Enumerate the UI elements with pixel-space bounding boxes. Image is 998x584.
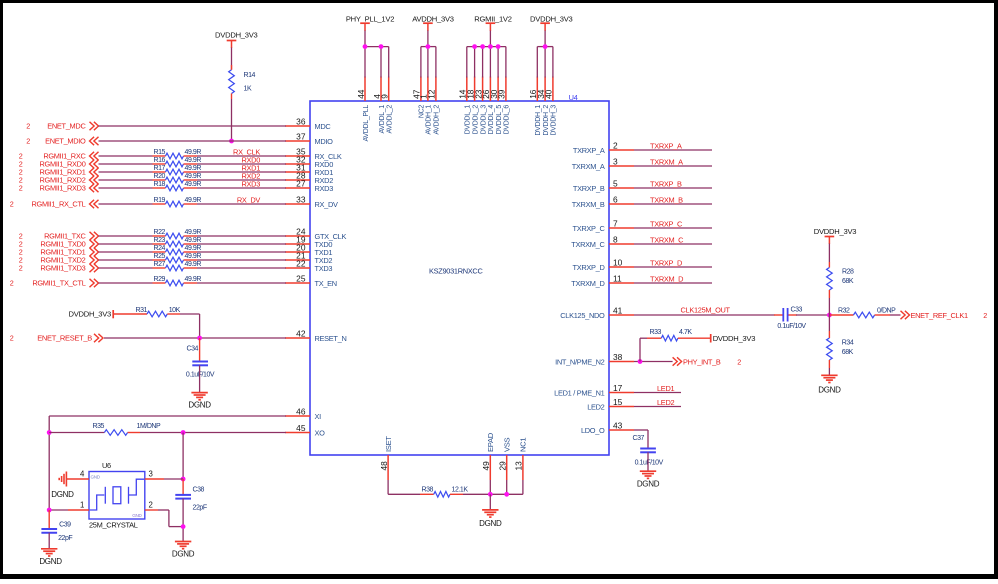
U4 pin 27 RXD3 (285, 179, 333, 194)
U4 pin 41 CLK125_NDO (560, 306, 634, 321)
port RGMII1_RXC (page 2) (19, 152, 99, 161)
U4 top pin 34 DVDDH_2 (536, 77, 550, 136)
svg-text:TXRXM_C: TXRXM_C (650, 236, 684, 245)
resistor R33 4.7K (647, 329, 711, 341)
junction EPAD/ground (488, 492, 493, 497)
port RGMII1_TXD1 (page 2) (19, 248, 99, 257)
svg-text:DVDDL_5: DVDDL_5 (496, 105, 503, 135)
node RXD2 (241, 172, 260, 181)
svg-text:RESET_N: RESET_N (315, 334, 347, 343)
wire RGMII1_RX_CTL to R19 (99, 203, 153, 205)
resistor R20 49.9R (153, 173, 202, 183)
node TXRXM_B (650, 196, 683, 205)
svg-text:DVDDH_3V3: DVDDH_3V3 (69, 310, 112, 319)
junction R14/MDIO (229, 139, 234, 144)
wire RGMII1_RXC to R15 (99, 155, 153, 157)
svg-text:R35: R35 (93, 423, 105, 430)
svg-text:40: 40 (544, 89, 554, 99)
U4 top pin 14 DVDDL_1 (458, 77, 472, 135)
node RXD1 (241, 164, 260, 173)
U4 pin 11 TXRXM_D (571, 274, 634, 289)
svg-text:U4: U4 (569, 93, 578, 102)
svg-text:R38: R38 (422, 486, 434, 493)
resistor R15 49.9R (153, 149, 202, 159)
svg-text:R27: R27 (154, 261, 166, 268)
junction INT_N/R33 (638, 359, 643, 364)
svg-text:1: 1 (80, 501, 84, 510)
svg-text:11: 11 (613, 274, 622, 284)
ground DGND (C38) (172, 542, 195, 559)
U4 top pin 18 DVDDL_2 (465, 77, 479, 135)
svg-text:49.9R: 49.9R (185, 149, 202, 156)
svg-text:MDIO: MDIO (315, 137, 334, 146)
crystal pin 4 lead (66, 470, 89, 480)
power symbol PHY_PLL_1V2 (346, 15, 394, 47)
U4 pin 24 GTX_CLK (285, 227, 346, 242)
ground DGND (C37) (637, 471, 660, 489)
wire R31 to RESET_N net (180, 314, 200, 338)
node RX_DV (237, 196, 261, 205)
svg-text:1K: 1K (244, 86, 252, 93)
svg-text:49.9R: 49.9R (185, 253, 202, 260)
ground DGND (C39) (39, 549, 62, 566)
wire R28 to CLK125 node (828, 298, 830, 315)
wire pin drop x=490.4 (489, 47, 491, 78)
resistor R19 49.9R (153, 197, 202, 207)
node TXRXM_C (650, 236, 684, 245)
node RX_CLK (233, 148, 260, 157)
junction RGMII_1V2 bus (496, 44, 501, 49)
port RGMII1_TX_CTL (page 2) (10, 279, 99, 288)
svg-text:RGMII1_RX_CTL: RGMII1_RX_CTL (31, 200, 85, 209)
wire RGMII1_TX_CTL to R29 (99, 282, 153, 284)
wire power bus AVDDH_3V3 (421, 46, 436, 48)
U4 pin 45 XO (285, 423, 325, 438)
svg-text:DVDDL_2: DVDDL_2 (472, 105, 479, 135)
svg-text:8: 8 (613, 235, 618, 245)
svg-text:DVDDH_2: DVDDH_2 (543, 105, 550, 136)
svg-text:DVDDL_1: DVDDL_1 (465, 105, 472, 135)
svg-text:R25: R25 (154, 253, 166, 260)
wire R35 to XO (140, 432, 286, 434)
wire R27 to U4 (197, 267, 286, 269)
wire C34 to ground (199, 365, 201, 392)
wire R17 to U4 (197, 171, 286, 173)
svg-text:C39: C39 (59, 521, 71, 528)
port RGMII1_RXD2 (page 2) (19, 176, 99, 185)
resistor R22 49.9R (153, 229, 202, 239)
U4 pin 37 MDIO (285, 132, 333, 147)
junction DVDDH_3V3 bus (543, 44, 548, 49)
wire power bus RGMII_1V2 (467, 46, 506, 48)
svg-text:12.1K: 12.1K (452, 486, 469, 493)
junction XI/C39/crystal pin1 (47, 508, 52, 513)
svg-text:C33: C33 (791, 307, 803, 314)
wire pin drop x=552.9 (552, 47, 554, 78)
resistor R18 49.9R (153, 181, 202, 191)
svg-text:TXRXM_A: TXRXM_A (572, 162, 605, 171)
svg-text:INT_N/PME_N2: INT_N/PME_N2 (555, 358, 605, 367)
svg-text:EPAD: EPAD (486, 432, 495, 452)
U4 top pin 40 DVDDH_3 (544, 77, 558, 136)
svg-text:49.9R: 49.9R (185, 245, 202, 252)
resistor R28 68K (827, 262, 854, 298)
wire pin drop x=427.9 (427, 47, 429, 78)
svg-text:AVDDL_PLL: AVDDL_PLL (363, 105, 370, 142)
svg-text:TXRXP_A: TXRXP_A (573, 146, 605, 155)
junction AVDDH_3V3 bus (426, 44, 431, 49)
svg-text:41: 41 (613, 306, 623, 316)
svg-text:DVDDH_3V3: DVDDH_3V3 (713, 334, 756, 343)
svg-text:25: 25 (296, 274, 306, 284)
U4 pin 32 RXD0 (285, 155, 333, 170)
power symbol DVDDH_3V3 (R28) (814, 227, 857, 244)
svg-text:LED2: LED2 (657, 398, 674, 407)
U4 bottom pin 13 NC1 (514, 438, 528, 480)
wire pin drop x=482.6 (482, 47, 484, 78)
junction CLK125/R28/R34 (827, 313, 832, 318)
svg-text:XO: XO (315, 429, 326, 438)
power symbol DVDDH_3V3 (530, 15, 573, 47)
svg-text:15: 15 (613, 397, 623, 407)
U4 pin 43 LDO_O (581, 421, 634, 436)
resistor R25 49.9R (153, 253, 202, 263)
capacitor C33 0.1uF/10V (774, 307, 806, 331)
svg-text:NC1: NC1 (519, 438, 528, 452)
svg-text:42: 42 (296, 329, 306, 339)
node TXRXM_A (650, 158, 683, 167)
svg-text:TXD3: TXD3 (315, 264, 333, 273)
U4 bottom pin 29 VSS (498, 437, 512, 480)
svg-text:RX_DV: RX_DV (237, 196, 261, 205)
U4 top pin 1 AVDDH_1 (419, 77, 433, 135)
wire RGMII1_RXD1 to R17 (99, 171, 153, 173)
svg-text:ENET_MDC: ENET_MDC (47, 122, 86, 131)
junction PHY_PLL_1V2 bus (379, 44, 384, 49)
node CLK125M_OUT (681, 306, 731, 315)
wire R20 to U4 (197, 179, 286, 181)
svg-text:RX_DV: RX_DV (315, 200, 339, 209)
svg-text:DVDDH_1: DVDDH_1 (535, 105, 542, 136)
svg-text:2: 2 (983, 311, 987, 320)
capacitor C37 0.1uF/10V (633, 435, 664, 466)
wire R24 to U4 (197, 251, 286, 253)
ground DGND (crystal pin4) (51, 472, 74, 499)
svg-text:C38: C38 (193, 487, 205, 494)
svg-text:9: 9 (380, 94, 390, 99)
U4 top pin 44 AVDDL_PLL (356, 77, 370, 142)
wire LED2 (634, 406, 681, 408)
resistor R24 49.9R (153, 245, 202, 255)
svg-text:12: 12 (427, 89, 437, 99)
U4 top pin 47 NC2 (412, 77, 426, 119)
svg-text:2: 2 (613, 141, 618, 151)
U4 top pin 4 AVDDL_1 (372, 77, 386, 134)
svg-text:AVDDH_1: AVDDH_1 (426, 105, 433, 135)
svg-text:29: 29 (498, 461, 508, 471)
svg-text:DGND: DGND (51, 490, 74, 499)
svg-text:68K: 68K (842, 349, 854, 356)
port RGMII1_TXD0 (page 2) (19, 240, 99, 249)
svg-text:R19: R19 (154, 197, 166, 204)
svg-text:DGND: DGND (818, 385, 841, 394)
U4 pin 2 TXRXP_A (573, 141, 634, 156)
wire VSS down (506, 480, 508, 494)
svg-text:GND: GND (91, 475, 101, 480)
svg-text:68K: 68K (842, 278, 854, 285)
wire R34 to ground (828, 368, 830, 375)
svg-text:RGMII_1V2: RGMII_1V2 (474, 15, 511, 24)
U4 pin 10 TXRXP_D (573, 258, 635, 273)
svg-text:R20: R20 (154, 173, 166, 180)
svg-text:DVDDL_3: DVDDL_3 (480, 105, 487, 135)
node LED1 (657, 384, 674, 393)
U4 pin 28 RXD2 (285, 171, 333, 186)
svg-text:17: 17 (613, 383, 623, 393)
svg-text:ENET_RESET_B: ENET_RESET_B (37, 334, 92, 343)
wire pin drop x=388.7 (388, 47, 390, 78)
wire C39 to ground (48, 533, 50, 549)
junction VSS (504, 492, 509, 497)
svg-text:49.9R: 49.9R (185, 181, 202, 188)
U4 pin 42 RESET_N (285, 329, 347, 344)
svg-text:DVDDH_3V3: DVDDH_3V3 (814, 227, 857, 236)
wire ENET_MDC to U4 (99, 125, 287, 127)
svg-text:7: 7 (613, 219, 618, 229)
wire R14 to MDIO (231, 99, 233, 141)
svg-text:R28: R28 (842, 269, 854, 276)
resistor R23 49.9R (153, 237, 202, 247)
svg-text:37: 37 (296, 132, 306, 142)
wire DVDDH_3V3 to R28 (828, 244, 830, 263)
svg-text:R34: R34 (842, 339, 854, 346)
wire EPAD to ground (489, 494, 491, 510)
svg-text:VSS: VSS (503, 437, 512, 452)
svg-text:PHY_INT_B: PHY_INT_B (683, 357, 721, 366)
svg-text:TXRXP_C: TXRXP_C (573, 224, 606, 233)
svg-text:C37: C37 (633, 435, 645, 442)
svg-text:2: 2 (10, 200, 14, 209)
svg-text:0.1uF/10V: 0.1uF/10V (635, 459, 664, 466)
U4 pin 20 TXD1 (285, 243, 332, 258)
capacitor C38 22pF (175, 479, 207, 512)
svg-text:R16: R16 (154, 157, 166, 164)
junction crystal pin3/C38 (181, 477, 186, 482)
wire LED1 (634, 392, 681, 394)
svg-text:GND: GND (132, 513, 142, 518)
svg-text:49.9R: 49.9R (185, 237, 202, 244)
crystal U6 25M_CRYSTAL (89, 461, 145, 530)
svg-text:2: 2 (19, 264, 23, 273)
svg-text:LED1 / PME_N1: LED1 / PME_N1 (554, 389, 605, 398)
svg-text:49.9R: 49.9R (185, 276, 202, 283)
resistor R34 68K (827, 331, 854, 368)
svg-text:RGMII1_TXD3: RGMII1_TXD3 (40, 264, 85, 273)
svg-text:R14: R14 (244, 72, 256, 79)
svg-text:49: 49 (481, 461, 491, 471)
port ENET_RESET_B (page 2) (10, 334, 103, 343)
U4 pin 6 TXRXM_B (572, 195, 634, 210)
wire TXRXM_D (634, 282, 712, 284)
resistor R14 1K (229, 65, 256, 99)
svg-text:4.7K: 4.7K (679, 329, 692, 336)
svg-text:C34: C34 (187, 346, 199, 353)
wire pin drop x=365 (364, 47, 366, 78)
svg-text:DVDDL_6: DVDDL_6 (504, 105, 511, 135)
wire pin drop x=466.8 (466, 47, 468, 78)
port ENET_MDC (page 2) (26, 122, 98, 131)
resistor R35 1M/DNP (49, 423, 161, 436)
ground DGND (R34) (818, 375, 841, 394)
svg-text:DVDDL_4: DVDDL_4 (488, 105, 495, 135)
svg-text:27: 27 (296, 179, 306, 189)
svg-text:R22: R22 (154, 229, 166, 236)
svg-text:ENET_REF_CLK1: ENET_REF_CLK1 (911, 311, 968, 320)
svg-text:RXD3: RXD3 (241, 180, 260, 189)
svg-text:33: 33 (296, 195, 306, 205)
junction RESET/C34 (197, 336, 202, 341)
svg-text:RXD3: RXD3 (315, 184, 334, 193)
svg-text:TXRXM_C: TXRXM_C (571, 240, 605, 249)
junction RGMII_1V2 bus (488, 44, 493, 49)
svg-text:10K: 10K (169, 307, 181, 314)
U4 top pin 23 DVDDL_3 (473, 77, 487, 135)
svg-text:22pF: 22pF (193, 505, 207, 512)
wire NC1 down (522, 480, 524, 494)
svg-text:TXRXP_D: TXRXP_D (650, 259, 682, 268)
wire XO down to crystal pin3 (182, 433, 184, 480)
svg-text:RGMII1_RXD3: RGMII1_RXD3 (40, 184, 86, 193)
wire C37 to ground (647, 452, 649, 471)
port RGMII1_RX_CTL (page 2) (10, 200, 99, 209)
junction PHY_PLL_1V2 bus (363, 44, 368, 49)
svg-text:CLK125M_OUT: CLK125M_OUT (681, 306, 731, 315)
wire R22 to U4 (197, 235, 286, 237)
power symbol RGMII_1V2 (474, 15, 511, 47)
U4 top pin 12 AVDDH_2 (427, 77, 441, 135)
svg-text:49.9R: 49.9R (185, 157, 202, 164)
wire RGMII1_RXD2 to R20 (99, 179, 153, 181)
wire TXRXP_D (634, 266, 712, 268)
svg-text:R24: R24 (154, 245, 166, 252)
svg-text:TXRXM_D: TXRXM_D (650, 275, 683, 284)
wire R32 to port (890, 314, 901, 316)
svg-text:R15: R15 (154, 149, 166, 156)
port RGMII1_RXD3 (page 2) (19, 184, 99, 193)
svg-text:R17: R17 (154, 165, 166, 172)
junction XO/C38 (181, 430, 186, 435)
wire XI net (49, 416, 286, 510)
node TXRXP_B (650, 180, 682, 189)
U4 pin 8 TXRXM_C (571, 235, 634, 250)
power symbol DVDDH_3V3 (R14) (215, 31, 258, 49)
U4 bottom pin 48 ISET (379, 436, 393, 480)
wire RGMII1_TXD2 to R25 (99, 259, 153, 261)
crystal pin 2 lead (145, 501, 183, 527)
wire power bus PHY_PLL_1V2 (365, 46, 389, 48)
svg-text:49.9R: 49.9R (185, 165, 202, 172)
svg-text:39: 39 (497, 89, 507, 99)
svg-text:49.9R: 49.9R (185, 173, 202, 180)
junction RGMII_1V2 bus (480, 44, 485, 49)
wire INT_N to port (634, 361, 673, 363)
junction XI/R35 (47, 430, 52, 435)
svg-text:XI: XI (315, 412, 322, 421)
svg-text:R32: R32 (838, 308, 850, 315)
port ENET_MDIO (page 2) (26, 137, 98, 146)
U4 pin 21 TXD2 (285, 251, 332, 266)
svg-text:LED2: LED2 (587, 403, 604, 412)
power symbol DVDDH_3V3 (R31) (69, 310, 114, 319)
wire CLK125_NDO to C33 (634, 314, 775, 316)
svg-text:LED1: LED1 (657, 384, 674, 393)
wire DVDDH_3V3 to R14 (231, 48, 233, 70)
wire RGMII1_TXD0 to R23 (99, 243, 153, 245)
svg-text:DGND: DGND (188, 401, 211, 410)
wire C38 to ground (182, 499, 184, 542)
node TXRXM_D (650, 275, 683, 284)
wire pin drop x=537.3 (536, 47, 538, 78)
U4 pin 3 TXRXM_A (572, 157, 634, 172)
wire pin drop x=545.1 (544, 47, 546, 78)
wire RGMII1_TXC to R22 (99, 235, 153, 237)
svg-text:PHY_PLL_1V2: PHY_PLL_1V2 (346, 15, 394, 24)
wire EPAD down (489, 480, 491, 494)
svg-text:49.9R: 49.9R (185, 261, 202, 268)
U4 pin 22 TXD3 (285, 259, 332, 274)
resistor R38 12.1K (388, 486, 468, 497)
wire RGMII1_TXD1 to R24 (99, 251, 153, 253)
power symbol DVDDH_3V3 (R33) (711, 334, 756, 343)
svg-text:2: 2 (737, 357, 741, 366)
node RXD0 (241, 156, 260, 165)
svg-text:49.9R: 49.9R (185, 229, 202, 236)
U4 top pin 16 DVDDH_1 (528, 77, 542, 136)
U4 bottom pin 49 EPAD (481, 432, 495, 480)
svg-text:1M/DNP: 1M/DNP (137, 423, 162, 430)
svg-text:DGND: DGND (637, 480, 660, 489)
U4 pin 15 LED2 (587, 397, 634, 412)
U4 pin 46 XI (285, 407, 321, 422)
U4 top pin 26 DVDDL_4 (481, 77, 495, 135)
svg-text:38: 38 (613, 352, 623, 362)
ground DGND (C34) (188, 393, 211, 410)
svg-text:AVDDH_2: AVDDH_2 (434, 105, 441, 135)
wire TXRXM_A (634, 165, 712, 167)
capacitor C34 0.1uF/10V (186, 346, 215, 379)
svg-text:5: 5 (613, 179, 618, 189)
port RGMII1_TXD2 (page 2) (19, 256, 99, 265)
svg-text:36: 36 (296, 117, 306, 127)
node LED2 (657, 398, 674, 407)
svg-text:2: 2 (19, 184, 23, 193)
svg-text:TX_EN: TX_EN (315, 279, 337, 288)
wire C33 to R32 (796, 314, 829, 316)
svg-text:R18: R18 (154, 181, 166, 188)
svg-text:AVDDL_2: AVDDL_2 (387, 105, 394, 134)
node TXRXP_D (650, 259, 682, 268)
svg-text:43: 43 (613, 421, 623, 431)
svg-text:0.1uF/10V: 0.1uF/10V (777, 323, 806, 330)
svg-text:13: 13 (514, 461, 524, 471)
wire RGMII1_TXD3 to R27 (99, 267, 153, 269)
wire CLK125 node to R34 (828, 315, 830, 331)
wire pin drop x=498.1 (497, 47, 499, 78)
node TXRXP_C (650, 220, 683, 229)
port RGMII1_TXD3 (page 2) (19, 264, 99, 273)
svg-text:RGMII1_TX_CTL: RGMII1_TX_CTL (32, 279, 85, 288)
svg-text:49.9R: 49.9R (185, 197, 202, 204)
